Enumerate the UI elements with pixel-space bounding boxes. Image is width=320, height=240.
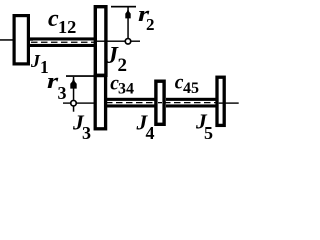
r3 dimension arrow line <box>73 77 75 100</box>
svg-text:3: 3 <box>82 123 91 143</box>
r2 dimension tick line <box>111 6 136 8</box>
wire: stub below bottom node circle <box>73 106 75 112</box>
shaft c12 lower line <box>30 44 95 47</box>
wire: centerline right of J5 <box>219 102 239 103</box>
svg-text:45: 45 <box>183 80 199 97</box>
r2 dimension arrow line <box>127 8 129 39</box>
shaft c12 dashed centerline <box>31 41 95 43</box>
disk J5 <box>217 77 224 125</box>
svg-text:3: 3 <box>58 83 67 103</box>
shaft c12 upper line <box>30 37 95 40</box>
gear disk J3 <box>95 76 105 129</box>
node circle on bottom shaft <box>71 100 77 106</box>
svg-text:2: 2 <box>118 55 128 76</box>
svg-text:12: 12 <box>58 17 76 37</box>
gear disk J2 <box>95 7 106 76</box>
node circle on top shaft <box>125 39 131 45</box>
r3 arrowhead <box>70 78 76 89</box>
disk J1 <box>14 16 28 64</box>
r3 dimension tick line <box>66 75 94 77</box>
wire: centerline through J2 to node circle <box>97 41 126 42</box>
svg-text:2: 2 <box>146 15 155 34</box>
disk J4 <box>156 81 164 124</box>
shaft c34 dashed centerline <box>106 102 156 104</box>
shaft c45 dashed centerline <box>164 102 217 104</box>
shaft c34 upper line <box>106 98 156 101</box>
svg-text:34: 34 <box>118 81 134 98</box>
shaft c34 lower line <box>106 104 156 107</box>
svg-text:4: 4 <box>146 123 155 143</box>
r2 arrowhead <box>125 8 130 18</box>
shaft c45 upper line <box>166 98 217 101</box>
shaft c45 lower line <box>166 104 217 107</box>
wire: centerline stub right of node circle <box>131 41 140 42</box>
wire: bottom shaft centerline from node circle to J3 <box>63 102 103 103</box>
svg-text:5: 5 <box>204 123 213 143</box>
wire: centerline dash inside J4 hub <box>158 102 162 103</box>
wire: top shaft centerline left of J1 <box>0 39 33 41</box>
